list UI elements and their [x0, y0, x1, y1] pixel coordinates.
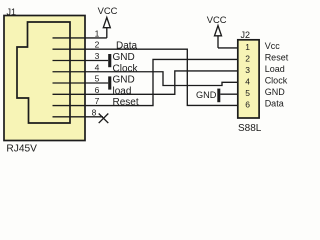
- wire pin4 Clock: J1.4 to J2.4: [53, 72, 238, 86]
- svg-text:5: 5: [95, 74, 100, 84]
- wire pin5 GND stub: [53, 82, 109, 84]
- svg-text:Data: Data: [265, 98, 284, 108]
- ground bar J1 pin3: [108, 54, 111, 67]
- wire GND to J2 pin5: [220, 93, 238, 95]
- svg-text:Clock: Clock: [113, 63, 139, 74]
- wire VCC stem right: [217, 36, 219, 48]
- svg-text:Reset: Reset: [113, 97, 139, 108]
- svg-text:2: 2: [245, 54, 250, 64]
- svg-text:Vcc: Vcc: [265, 41, 281, 51]
- svg-text:7: 7: [95, 96, 100, 106]
- svg-text:3: 3: [95, 51, 100, 61]
- svg-text:Data: Data: [116, 41, 138, 52]
- svg-text:S88L: S88L: [238, 123, 262, 134]
- connector J1 body (RJ45 jack): [4, 16, 85, 141]
- svg-text:J2: J2: [241, 30, 251, 40]
- ground bar J1 pin5: [108, 76, 111, 89]
- svg-text:1: 1: [245, 42, 250, 52]
- svg-text:8: 8: [92, 107, 97, 117]
- wire VCC stem left: [106, 28, 108, 38]
- svg-text:Reset: Reset: [265, 52, 289, 62]
- svg-text:6: 6: [95, 85, 100, 95]
- svg-text:GND: GND: [265, 87, 286, 97]
- no-connect X on pin8: [99, 114, 109, 124]
- svg-text:Load: Load: [265, 64, 285, 74]
- svg-text:1: 1: [95, 29, 100, 39]
- power symbol VCC right (arrow): [215, 26, 222, 36]
- wire pin7 Reset: J1.7 to J2.2: [53, 59, 238, 105]
- svg-text:VCC: VCC: [207, 14, 227, 25]
- svg-text:GND: GND: [113, 75, 135, 86]
- svg-text:2: 2: [95, 40, 100, 50]
- svg-text:6: 6: [245, 100, 250, 110]
- wire pin1 J1: [53, 37, 107, 39]
- wire pin3 GND stub: [53, 60, 109, 62]
- svg-text:VCC: VCC: [98, 5, 118, 16]
- svg-text:4: 4: [95, 62, 100, 72]
- RJ45 plug profile inside J1: [17, 22, 70, 123]
- svg-text:4: 4: [245, 77, 250, 87]
- svg-text:5: 5: [245, 88, 250, 98]
- wire VCC to J2 pin1: [218, 47, 238, 49]
- svg-text:J1: J1: [7, 7, 17, 17]
- svg-text:3: 3: [245, 65, 250, 75]
- wire pin8 stub: [53, 116, 104, 118]
- svg-text:Clock: Clock: [265, 75, 288, 85]
- wire pin2 Data: J1.2 to J2.6: [53, 49, 238, 105]
- svg-text:RJ45V: RJ45V: [6, 143, 37, 154]
- svg-text:GND: GND: [113, 52, 135, 63]
- connector J2 body: [238, 40, 259, 118]
- ground bar near J2 pin5: [217, 89, 220, 103]
- svg-text:GND: GND: [196, 90, 217, 100]
- power symbol VCC left (arrow): [103, 18, 110, 28]
- svg-text:load: load: [113, 86, 132, 97]
- wire pin6 load: J1.6 to J2.3: [53, 71, 238, 94]
